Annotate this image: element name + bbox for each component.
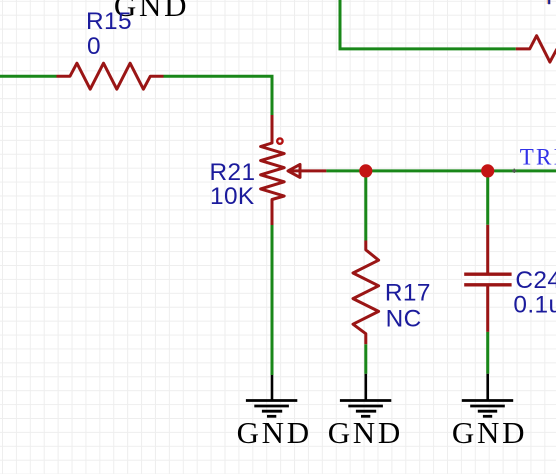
- svg-text:R17: R17: [385, 280, 431, 307]
- svg-text:0: 0: [87, 33, 101, 60]
- svg-text:GND: GND: [452, 415, 527, 450]
- svg-text:GND: GND: [237, 415, 312, 450]
- svg-text:R15: R15: [86, 8, 132, 35]
- svg-text:0.1u: 0.1u: [513, 291, 556, 318]
- svg-text:10K: 10K: [210, 183, 255, 210]
- svg-text:R21: R21: [210, 159, 256, 186]
- svg-text:NC: NC: [386, 306, 422, 333]
- svg-text:TRI: TRI: [520, 144, 556, 169]
- svg-text:GND: GND: [328, 415, 403, 450]
- svg-text:C24: C24: [515, 267, 556, 294]
